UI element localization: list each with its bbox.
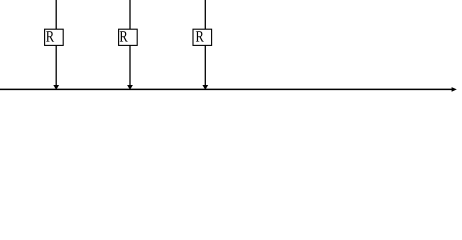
wire: R1 to bus [55,45,57,85]
arrowhead: R2 wire into bus [127,85,133,90]
wire: R2 to bus [129,45,131,85]
resistor R3 [193,29,212,45]
arrowhead: R1 wire into bus [53,85,59,90]
wire: top feed of R3 [204,0,206,29]
wire: top feed of R1 [55,0,57,29]
arrowhead: R3 wire into bus [202,85,208,90]
arrowhead: bus line right end [452,87,457,92]
resistor R2 [119,29,138,45]
resistor R1 [45,29,64,45]
wire: top feed of R2 [129,0,131,29]
wire: bus line [0,88,452,90]
wire: R3 to bus [204,45,206,85]
